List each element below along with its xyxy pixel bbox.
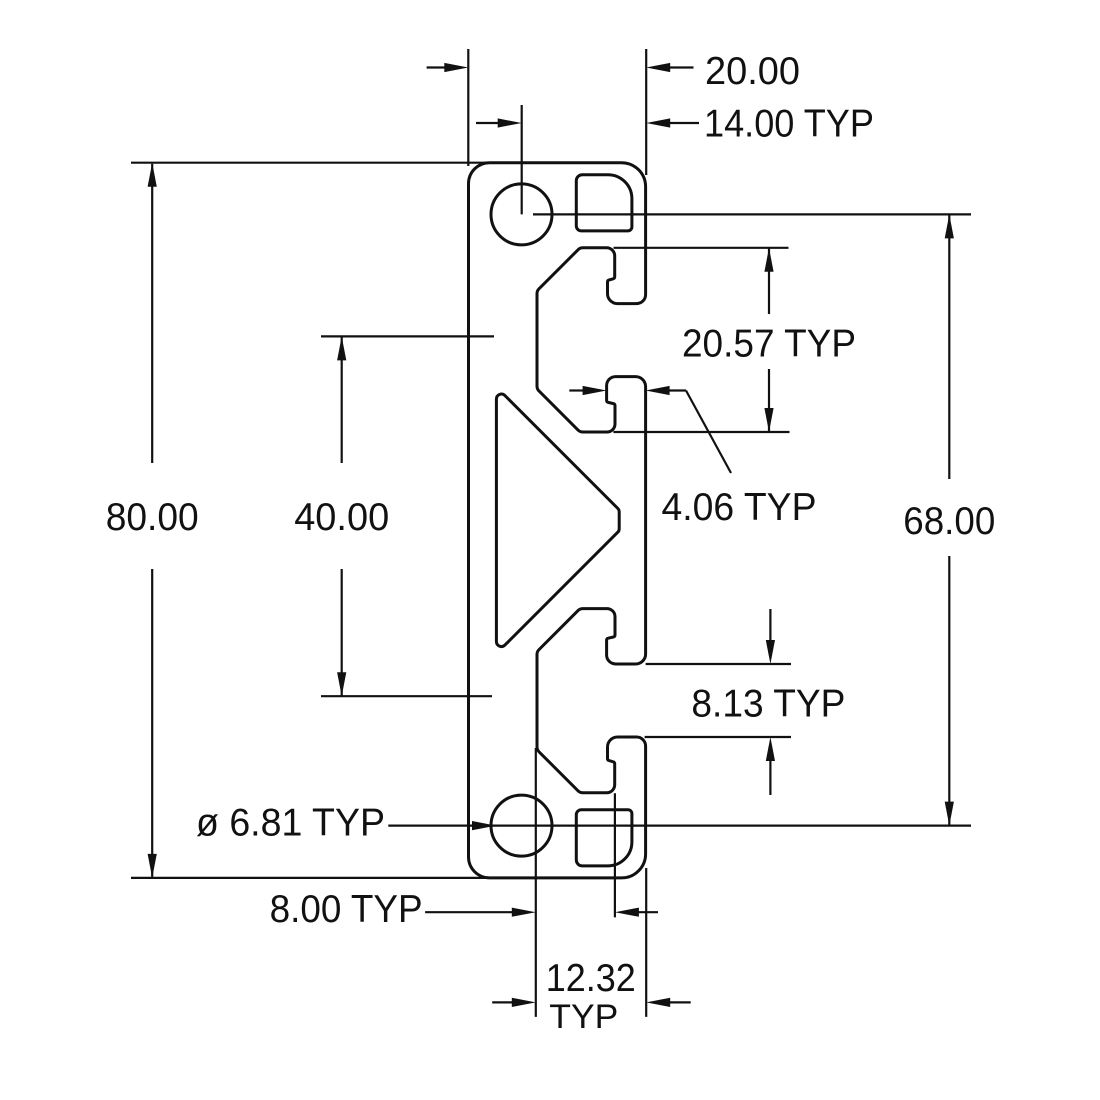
dimension 8.13 TYP <box>769 609 771 642</box>
dimension 8.00 TYP extension lines <box>535 748 537 1017</box>
top square slot <box>576 175 632 231</box>
bottom hole centerline <box>388 824 971 826</box>
svg-text:80.00: 80.00 <box>106 496 199 539</box>
dimension 12.32 TYP <box>492 1001 513 1003</box>
dimension 14.00 TYP extension line <box>521 105 523 214</box>
svg-text:8.00 TYP: 8.00 TYP <box>270 888 423 931</box>
svg-text:TYP: TYP <box>549 998 618 1036</box>
dimension 20.57 TYP <box>768 248 770 314</box>
dimension 40.00 <box>341 336 343 463</box>
dimension 80.00 extension lines <box>131 162 500 164</box>
svg-text:68.00: 68.00 <box>903 500 995 543</box>
bottom square slot <box>576 810 632 866</box>
dimension 68.00 <box>948 214 950 479</box>
dimension 8.13 TYP extension lines <box>646 663 791 665</box>
dimension 40.00 extension lines <box>321 335 494 337</box>
bottom hole <box>491 795 552 856</box>
svg-text:8.13 TYP: 8.13 TYP <box>691 683 845 726</box>
dimension 20.57 TYP extension lines <box>614 247 789 249</box>
svg-text:20.00: 20.00 <box>705 50 800 93</box>
svg-text:ø 6.81 TYP: ø 6.81 TYP <box>196 802 385 845</box>
diameter 6.81 leader arrow <box>472 821 496 830</box>
svg-text:40.00: 40.00 <box>294 496 389 539</box>
dimension 20.00 extension lines <box>467 49 469 166</box>
top hole <box>491 184 552 245</box>
triangle cutout <box>496 394 619 646</box>
dimension 14.00 TYP <box>476 122 498 124</box>
svg-text:12.32: 12.32 <box>546 957 636 1000</box>
dimension 12.32 TYP extension line <box>645 868 647 1017</box>
profile outline <box>469 163 646 878</box>
svg-text:14.00 TYP: 14.00 TYP <box>704 103 874 146</box>
top hole centerline <box>533 213 971 215</box>
dimension 4.06 TYP arrows <box>569 389 584 391</box>
dimension 4.06 TYP leader <box>686 391 731 474</box>
dimension 80.00 <box>151 164 153 463</box>
svg-text:4.06 TYP: 4.06 TYP <box>662 486 817 529</box>
svg-text:20.57 TYP: 20.57 TYP <box>682 323 856 366</box>
dimension 20.00 <box>427 66 445 68</box>
